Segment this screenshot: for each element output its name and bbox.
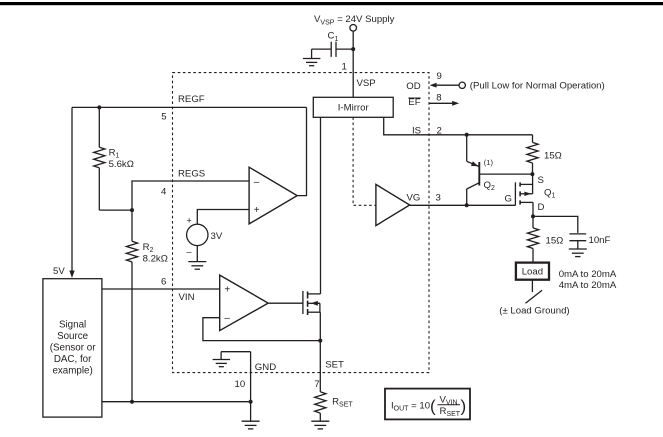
svg-text:Q2: Q2 xyxy=(484,180,495,192)
resistor 15ohm upper xyxy=(527,135,538,174)
svg-text:+: + xyxy=(224,285,230,296)
svg-text:REGF: REGF xyxy=(178,94,205,105)
svg-text:VVSP = 24V Supply: VVSP = 24V Supply xyxy=(314,14,395,26)
ground (bottom) xyxy=(242,421,260,429)
wire op-amp U2 output to REGF xyxy=(297,107,306,195)
svg-text:(1): (1) xyxy=(484,158,494,167)
svg-text:R1: R1 xyxy=(109,147,120,159)
wire VG xyxy=(410,204,516,206)
svg-text:Source: Source xyxy=(57,331,89,342)
top border bar xyxy=(0,2,663,5)
wire load to switch xyxy=(531,280,533,292)
wire supply to I-Mirror VSP xyxy=(352,31,354,97)
wire REGF xyxy=(72,106,307,108)
wire VIN xyxy=(102,288,220,290)
switch to load ground xyxy=(526,290,543,303)
svg-text:G: G xyxy=(505,194,512,205)
svg-text:DAC, for: DAC, for xyxy=(54,354,92,365)
wire 3V to op-amp + xyxy=(197,210,249,225)
ground (C1) xyxy=(303,59,321,66)
transistor M1 internal MOSFET xyxy=(303,291,321,315)
svg-text:15Ω: 15Ω xyxy=(544,150,562,161)
svg-text:–: – xyxy=(254,177,260,188)
svg-text:–: – xyxy=(224,313,230,324)
svg-text:0mA to 20mA: 0mA to 20mA xyxy=(559,269,617,280)
internal dashed line I-Mirror to VG buffer xyxy=(353,117,376,205)
svg-text:C1: C1 xyxy=(328,31,339,43)
signal source box xyxy=(43,279,102,417)
svg-text:Signal: Signal xyxy=(59,319,86,330)
svg-text:D: D xyxy=(538,202,545,213)
wire R1 to REGS node xyxy=(99,209,132,211)
svg-text:(: ( xyxy=(430,397,436,416)
svg-text:IOUT = 10: IOUT = 10 xyxy=(391,400,430,412)
wire D to 10nF xyxy=(533,216,578,233)
node REGF/R1 xyxy=(97,105,101,109)
svg-text:2: 2 xyxy=(437,125,442,136)
svg-text:SET: SET xyxy=(325,359,344,370)
svg-text:3: 3 xyxy=(436,192,441,203)
svg-text:5.6kΩ: 5.6kΩ xyxy=(109,159,134,170)
capacitor 10nF xyxy=(569,234,586,249)
wire EF pin 8 xyxy=(430,102,454,104)
wire I-Mirror to IS xyxy=(384,117,533,135)
I-Mirror U1 xyxy=(313,97,393,117)
load box xyxy=(516,263,549,280)
svg-text:Load: Load xyxy=(522,267,543,278)
resistor R2 8.2k xyxy=(126,241,137,401)
svg-text:R2: R2 xyxy=(143,242,154,254)
node C1 junction xyxy=(351,47,355,51)
svg-text:IS: IS xyxy=(412,125,421,136)
svg-text:8.2kΩ: 8.2kΩ xyxy=(143,253,168,264)
EF overline xyxy=(408,97,420,99)
wire OD pin 9 xyxy=(432,84,459,86)
svg-text:+: + xyxy=(254,205,260,216)
svg-text:10: 10 xyxy=(235,379,246,390)
transistor Q1 PMOS xyxy=(515,174,533,216)
svg-text:I-Mirror: I-Mirror xyxy=(338,103,370,114)
svg-text:3V: 3V xyxy=(211,231,223,242)
node R2 bottom xyxy=(130,400,134,404)
ground (10nF) xyxy=(569,249,587,257)
wire U3 output to M1 gate xyxy=(268,302,303,304)
node VG/Q2 collector xyxy=(465,203,469,207)
svg-text:(Pull Low for Normal Operation: (Pull Low for Normal Operation) xyxy=(470,81,605,92)
svg-text:4mA to 20mA: 4mA to 20mA xyxy=(559,280,617,291)
node S xyxy=(530,172,534,176)
op-amp U2 (REGS) xyxy=(249,167,297,224)
svg-text:VIN: VIN xyxy=(179,292,195,303)
svg-text:+: + xyxy=(187,216,192,226)
resistor RSET xyxy=(315,392,326,421)
formula box xyxy=(385,389,470,420)
wire GND pin 10 xyxy=(250,352,252,421)
svg-text:(± Load Ground): (± Load Ground) xyxy=(499,306,569,317)
resistor 15ohm lower xyxy=(527,216,538,262)
svg-text:EF: EF xyxy=(408,97,420,108)
IC dashed boundary box xyxy=(173,73,430,373)
svg-text:15Ω: 15Ω xyxy=(546,235,564,246)
svg-text:1: 1 xyxy=(342,61,347,72)
svg-text:OD: OD xyxy=(406,81,420,92)
capacitor C1 xyxy=(312,42,354,59)
signal source text xyxy=(50,319,96,376)
svg-text:RSET: RSET xyxy=(332,397,353,409)
wire SET down xyxy=(319,341,321,392)
svg-text:REGS: REGS xyxy=(178,169,205,180)
svg-text:6: 6 xyxy=(161,277,166,288)
svg-text:4: 4 xyxy=(161,187,167,198)
svg-text:example): example) xyxy=(52,365,92,376)
svg-text:8: 8 xyxy=(436,93,441,104)
svg-text:GND: GND xyxy=(255,362,276,373)
resistor R1 5.6k xyxy=(94,107,105,210)
svg-text:(Sensor or: (Sensor or xyxy=(50,342,96,353)
svg-text:S: S xyxy=(538,175,544,186)
buffer VG amp xyxy=(376,184,410,225)
OD terminal circle xyxy=(459,82,465,88)
transistor Q2 xyxy=(467,135,533,206)
wire REGS xyxy=(132,181,249,241)
wire signal source bottom xyxy=(102,401,251,403)
svg-text:): ) xyxy=(461,397,467,416)
svg-text:5V: 5V xyxy=(53,266,65,277)
supply terminal circle xyxy=(350,25,357,32)
node IS xyxy=(465,133,469,137)
svg-text:–: – xyxy=(187,246,192,256)
ground (IC GND pin) xyxy=(213,352,251,367)
ground (RSET) xyxy=(311,421,329,429)
voltage source 3V xyxy=(187,224,208,245)
svg-text:10nF: 10nF xyxy=(589,235,611,246)
wire U3 feedback xyxy=(203,318,320,341)
wire M1 source to SET xyxy=(319,312,321,340)
wire I-Mirror to M1 drain xyxy=(320,117,322,294)
svg-text:5: 5 xyxy=(161,112,166,123)
node GND xyxy=(249,400,253,404)
op-amp U3 (VIN) xyxy=(220,275,269,331)
svg-text:VG: VG xyxy=(407,192,421,203)
svg-text:Q1: Q1 xyxy=(544,187,555,199)
svg-text:9: 9 xyxy=(437,71,442,82)
ground (3V source) xyxy=(188,262,206,270)
node SET xyxy=(318,339,322,343)
wire 5V supply line xyxy=(71,107,73,271)
svg-text:RSET: RSET xyxy=(440,406,461,418)
svg-text:7: 7 xyxy=(314,379,319,390)
node D xyxy=(531,214,535,218)
svg-text:VSP: VSP xyxy=(357,78,376,89)
